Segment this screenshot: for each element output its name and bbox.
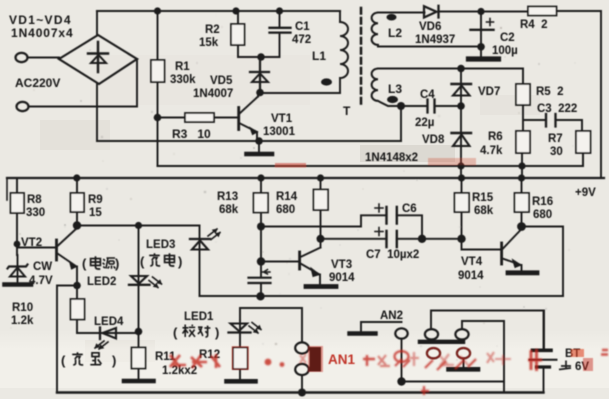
capacitor C2: [480, 12, 482, 58]
svg-text:(: (: [61, 353, 66, 368]
rail left stub: [6, 178, 8, 200]
diode VD6: [424, 6, 437, 17]
LED1 emit arrows: [249, 323, 261, 334]
resistor R1 body: [151, 60, 165, 82]
svg-text:LED2: LED2: [87, 276, 116, 288]
switch box top wire: [431, 311, 544, 349]
svg-text:(: (: [140, 254, 145, 269]
switch S2 stem and bar: [463, 358, 465, 367]
svg-text:CW: CW: [33, 261, 52, 273]
svg-text:15k: 15k: [199, 37, 219, 49]
svg-text:VD7: VD7: [478, 86, 500, 98]
transformer core (dashed): [360, 8, 363, 108]
R12 ground: [227, 379, 256, 384]
svg-text:R16: R16: [532, 196, 553, 208]
svg-text:): ): [112, 353, 116, 368]
transistor VT2: [55, 240, 58, 260]
wire R13 node down to VT3 base node: [260, 227, 262, 262]
capacitor C7: [321, 238, 386, 240]
svg-text:R15: R15: [472, 192, 494, 204]
bottom rail: [57, 391, 544, 393]
svg-text:R6: R6: [488, 131, 503, 143]
resistor R5 body: [516, 84, 530, 105]
wire bridge top to top rail: [96, 11, 98, 35]
svg-text:VT3: VT3: [331, 259, 352, 271]
resistor R2 body: [231, 24, 245, 45]
switch S2 contacts: [427, 348, 440, 358]
wire C6 branch: [261, 215, 385, 226]
svg-text:C4: C4: [420, 89, 435, 101]
svg-text:VD8: VD8: [422, 134, 445, 146]
L1 polarity dot: [321, 78, 332, 85]
LED1 branch box wire: [240, 308, 302, 342]
svg-text:T: T: [343, 104, 351, 118]
svg-text:4.7k: 4.7k: [480, 145, 503, 157]
wire VT2 base: [17, 247, 56, 249]
VT3 ground: [306, 284, 336, 289]
VT4 ground: [508, 270, 537, 275]
AC terminal 2: [17, 102, 29, 111]
capacitor C4: [402, 105, 458, 107]
capacitor C6: [387, 207, 397, 224]
svg-text:R10: R10: [12, 302, 33, 314]
resistor R7 body: [576, 131, 591, 153]
svg-text:+9V: +9V: [575, 187, 596, 199]
jack AN1 contacts: [295, 342, 309, 353]
transformer winding L1: [339, 11, 341, 93]
resistor R10 body: [71, 299, 85, 320]
AC terminal 1: [16, 53, 28, 62]
resistor R10 leads: [76, 286, 78, 333]
svg-text:C7 10µx2: C7 10µx2: [366, 249, 419, 261]
svg-text:LED4: LED4: [94, 316, 124, 328]
svg-text:VT1: VT1: [271, 113, 293, 125]
top rail (+HV): [97, 10, 340, 12]
svg-text:VD6: VD6: [419, 21, 441, 33]
resistor R8 leads: [16, 178, 18, 255]
svg-text:680: 680: [533, 209, 552, 221]
jack AN1 plug body: [310, 347, 322, 372]
resistor R15 leads: [461, 178, 463, 239]
wire VD5 node to L1 bottom: [260, 92, 340, 94]
resistor R13 body: [254, 193, 269, 213]
wire VD7 node to R5: [464, 69, 523, 85]
svg-text:1N4937: 1N4937: [415, 34, 455, 46]
svg-text:68k: 68k: [219, 204, 239, 216]
transistor VT4: [500, 243, 503, 264]
svg-text:C3 222: C3 222: [537, 103, 577, 115]
svg-text:VD5: VD5: [210, 75, 233, 87]
svg-text:L3: L3: [388, 82, 402, 96]
wire VT2 emitter node left and down to bottom rail: [57, 286, 77, 393]
resistor R6 body: [516, 131, 530, 153]
svg-text:100µ: 100µ: [492, 45, 518, 57]
svg-text:R4 2: R4 2: [520, 19, 548, 31]
resistor R1 leads: [157, 11, 159, 114]
red overlays: [308, 346, 323, 372]
wire L3 bottom down to emitter return: [400, 106, 402, 141]
svg-text:13001: 13001: [263, 126, 296, 138]
LED3: [199, 226, 201, 297]
svg-text:L2: L2: [388, 26, 402, 40]
svg-text:R7: R7: [548, 133, 563, 145]
LED1: [239, 321, 241, 348]
wire bridge bottom down to emitter return: [96, 84, 98, 141]
LED2: [138, 226, 140, 332]
svg-text:R5 2: R5 2: [536, 86, 564, 98]
resistor R2 leads: [238, 11, 261, 57]
+9V rail: [7, 177, 604, 179]
resistor R11 leads: [138, 332, 140, 380]
svg-text:C1: C1: [295, 21, 310, 33]
svg-text:22µ: 22µ: [415, 117, 434, 129]
svg-text:68k: 68k: [474, 205, 494, 217]
resistor R3 leads: [162, 117, 238, 119]
resistor R13 leads: [260, 178, 262, 227]
resistor R4 body: [528, 7, 557, 16]
svg-text:VT4: VT4: [461, 256, 483, 268]
wire R5-R6 node and C3 branch: [523, 105, 545, 131]
svg-text:330: 330: [26, 207, 45, 219]
svg-text:C2: C2: [500, 32, 515, 44]
wire collector row y225: [77, 225, 200, 227]
svg-text:330k: 330k: [170, 74, 196, 86]
svg-text:9014: 9014: [329, 272, 355, 284]
svg-text:4.7V: 4.7V: [29, 275, 53, 287]
svg-text:R8: R8: [27, 194, 42, 206]
wire terminal2 to bridge right vertex: [29, 59, 138, 107]
battery BT plates: [533, 348, 552, 352]
wire VT4 collector node right and down: [522, 227, 564, 297]
bridge rectifier VD1-VD4 diamond: [59, 35, 137, 84]
svg-text:AN2: AN2: [380, 310, 403, 322]
svg-text:VT2: VT2: [21, 237, 42, 249]
red watermark strokes: [170, 349, 608, 395]
long wire y296: [200, 295, 563, 297]
capacitor C5: [260, 262, 262, 297]
switch S1 bar: [420, 340, 463, 344]
LED3 emit arrows: [208, 229, 220, 240]
capacitor C1: [261, 11, 280, 57]
resistor R16 leads: [521, 178, 523, 227]
svg-text:L1: L1: [312, 49, 326, 63]
svg-text:1N4007: 1N4007: [193, 88, 233, 100]
LED4 emit arrows: [95, 341, 108, 349]
svg-text:AN1: AN1: [328, 352, 355, 367]
svg-text:VD1~VD4: VD1~VD4: [9, 13, 72, 27]
svg-text:R9: R9: [88, 194, 103, 206]
wire R4 to right edge down to +9V rail: [557, 11, 602, 178]
svg-text:30: 30: [550, 146, 563, 158]
CW ground: [5, 282, 32, 287]
L2 polarity dot: [387, 14, 397, 21]
LED2 emit arrows: [149, 277, 162, 288]
svg-text:): ): [178, 254, 182, 269]
resistor R12 leads: [239, 369, 241, 380]
resistor R3 body: [185, 113, 214, 122]
svg-text:R14: R14: [276, 191, 298, 203]
wire R6 bottom stub to rail: [521, 153, 523, 178]
transformer winding L3: [378, 68, 459, 70]
diode VD7: [460, 69, 462, 107]
resistor R11 body: [132, 348, 146, 369]
svg-text:9014: 9014: [458, 270, 484, 282]
emitter return wire y141: [97, 140, 401, 142]
resistor R15 body: [455, 193, 470, 212]
svg-text:): ): [215, 325, 219, 340]
svg-text:680: 680: [276, 204, 295, 216]
L3 polarity dot: [387, 96, 398, 103]
svg-text:472: 472: [292, 34, 311, 46]
LED4: [77, 332, 139, 334]
transistor VT3: [261, 261, 299, 263]
resistor R9 body: [71, 193, 85, 212]
svg-text:(: (: [173, 325, 178, 340]
svg-text:1.2k: 1.2k: [11, 315, 34, 327]
resistor R8 body: [11, 193, 25, 213]
wire R1 bottom to feedback line: [157, 114, 159, 166]
transistor VT1: [237, 108, 240, 130]
resistor R16 body: [515, 193, 530, 212]
svg-text:1N4007x4: 1N4007x4: [11, 26, 74, 40]
svg-text:R1: R1: [175, 61, 190, 73]
resistor R14 body: [314, 190, 329, 211]
wire AN2 to switch common: [402, 381, 505, 383]
bridge inner diode symbol: [88, 42, 108, 72]
svg-text:LED3: LED3: [146, 239, 175, 251]
resistor R9 leads: [76, 178, 78, 225]
svg-text:): ): [115, 256, 119, 271]
svg-text:(: (: [82, 256, 87, 271]
svg-text:AC220V: AC220V: [15, 76, 60, 90]
R11 ground: [124, 379, 154, 384]
capacitor C3: [546, 114, 556, 127]
wire terminal1 to bridge left vertex: [28, 57, 60, 59]
switch S1 contacts: [425, 329, 438, 339]
svg-text:R13: R13: [217, 191, 238, 203]
svg-text:1N4148x2: 1N4148x2: [365, 152, 418, 164]
feedback line y166 to R7: [158, 153, 584, 166]
wire VD8 node stub to rail: [460, 166, 462, 178]
zener CW: [8, 265, 28, 269]
svg-text:LED1: LED1: [184, 311, 214, 323]
svg-text:R3 10: R3 10: [172, 127, 211, 141]
transformer winding L2: [378, 12, 425, 14]
switch inner wire: [462, 321, 504, 393]
VT1 ground: [258, 141, 260, 152]
svg-text:15: 15: [89, 207, 102, 219]
diode VD8: [460, 106, 462, 166]
wire VT4 base jog: [462, 239, 502, 250]
diode VD5: [250, 57, 269, 93]
resistor R14 leads: [320, 178, 322, 239]
svg-text:C6: C6: [402, 203, 417, 215]
resistor R12 body: [233, 348, 248, 370]
pushbutton AN2: [361, 322, 402, 332]
svg-text:R2: R2: [205, 24, 220, 36]
